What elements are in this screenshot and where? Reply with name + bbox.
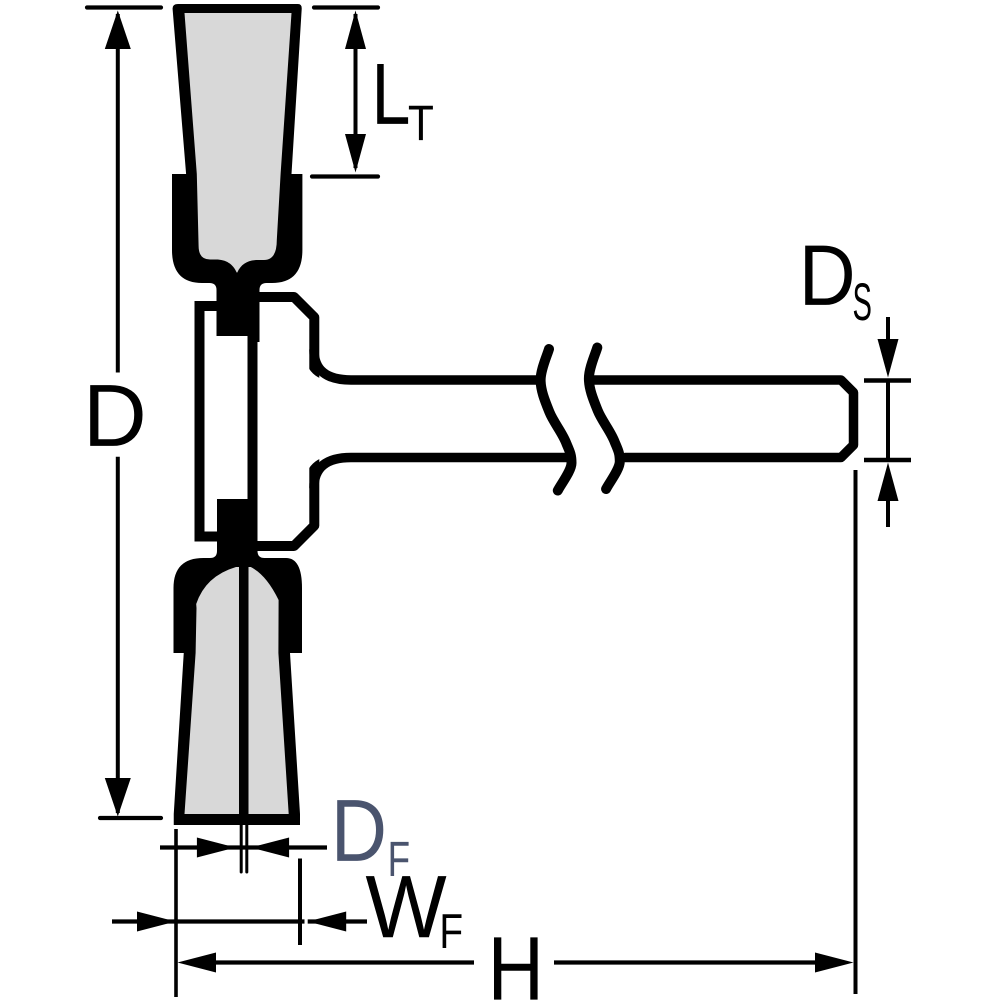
shank fill [304, 348, 856, 489]
fold wire line left [240, 824, 243, 872]
dimension WF: right arrow [308, 912, 347, 932]
dimension LT: top extension line [314, 5, 378, 9]
break symbol curve 1 [541, 349, 572, 491]
dimension H: right arrow [815, 953, 854, 973]
bottom tuft center band [239, 563, 249, 818]
dimension D: top arrow [105, 11, 131, 50]
dimension D: top extension line [87, 5, 161, 9]
top stem (tuft fold through disc) [217, 280, 260, 342]
label D [90, 385, 142, 446]
bottom tuft gray fill [185, 567, 289, 814]
label LT [377, 64, 408, 124]
top tuft + ferrule silhouette [172, 4, 302, 342]
dimension LT: top arrow [345, 11, 366, 50]
label WF [366, 876, 447, 937]
H right extension line [854, 470, 858, 994]
dimension DS: lower tail [886, 499, 890, 527]
dimension DS: upper arrow [878, 339, 899, 378]
dimension D: bottom extension line [100, 816, 161, 820]
dimension LT: bottom extension line [312, 174, 378, 178]
shank top outline [314, 350, 539, 380]
dimension DS: lower arrow [878, 463, 899, 502]
dimension DS: middle line [886, 381, 890, 461]
dimension H: line left segment [214, 960, 474, 964]
dimension WF: line left part [112, 919, 305, 923]
label DS [805, 246, 852, 305]
dimension DS: lower tick [864, 458, 911, 462]
dimension WF: left extension line [174, 829, 178, 997]
dimension DF: right arrow [251, 838, 290, 858]
dimension WF: left arrow [137, 912, 176, 932]
dimension DS: upper tick [864, 378, 911, 382]
top tuft gray fill [185, 13, 292, 273]
dimension WF: line right part [308, 919, 367, 923]
fold wire line right [245, 824, 248, 872]
shank top outline right segment + right end [594, 380, 854, 458]
dimension DF: left arrow [197, 838, 236, 858]
label H [494, 937, 538, 999]
dimension H: line right segment [554, 960, 816, 964]
dimension D: line upper segment [116, 14, 120, 373]
dimension H: left arrow [178, 953, 217, 973]
dimension D: bottom arrow [105, 778, 131, 817]
dimension WF: right extension line [298, 859, 302, 946]
bottom ferrule + tuft silhouette [174, 499, 303, 825]
disc (brush carrier, edge-on) [200, 306, 253, 537]
dimension DS: upper tail [886, 317, 890, 342]
dimension D: line lower segment [116, 457, 120, 813]
break symbol curve 2 [589, 348, 620, 490]
dimension LT: bottom arrow [345, 134, 366, 173]
hub [252, 297, 314, 546]
dimension LT: line [354, 14, 358, 168]
dimension DF: line [160, 845, 327, 849]
label DF [337, 800, 383, 861]
shank bottom outline left segment [314, 458, 566, 488]
